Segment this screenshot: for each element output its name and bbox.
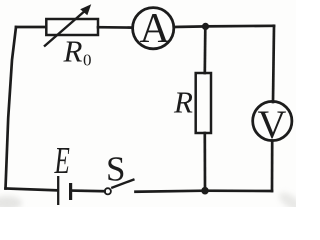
wire ammeter to node A (174, 25, 206, 28)
wire node A to resistor R (203, 26, 206, 73)
node B (bottom junction) (201, 187, 209, 195)
wire node A to top-right corner (206, 24, 275, 27)
node A (top junction) (202, 23, 209, 30)
wire node B to switch (136, 191, 206, 192)
svg-text:S: S (106, 150, 125, 189)
svg-text:R: R (63, 34, 83, 69)
wire resistor R to node B (203, 133, 206, 191)
svg-text:0: 0 (83, 51, 92, 70)
wire rheostat to ammeter (98, 26, 133, 29)
svg-text:V: V (258, 102, 287, 147)
wire bottom-right to node B (205, 189, 272, 192)
voltmeter V (253, 101, 292, 147)
wire top-left to rheostat (16, 26, 46, 29)
label R0 (63, 34, 92, 70)
svg-text:R: R (173, 85, 193, 120)
wire right side lower (271, 141, 274, 192)
battery E (58, 176, 70, 205)
ammeter A (133, 6, 174, 52)
wire battery to switch (72, 189, 105, 192)
wire bottom-left to battery (6, 189, 57, 191)
resistor R (196, 73, 211, 133)
wire left side (6, 27, 17, 189)
svg-text:A: A (140, 6, 171, 52)
rheostat R0 (44, 4, 98, 46)
svg-text:E: E (54, 139, 70, 181)
wire right side upper (273, 26, 274, 102)
switch S (105, 179, 135, 194)
